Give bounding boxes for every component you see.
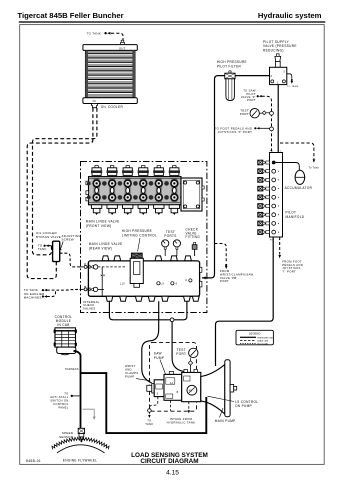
svg-text:L10: L10 <box>120 283 125 286</box>
svg-text:SCREW: SCREW <box>62 238 74 242</box>
node: from foot pedals T port (dashed) <box>278 237 303 274</box>
svg-text:OIL COOLER: OIL COOLER <box>101 105 124 109</box>
wire: filter to pilot supply valve <box>235 75 269 77</box>
node: to tank (bypass valve) <box>38 243 49 251</box>
wrist and clamps pump P2 <box>164 371 182 400</box>
wire: manifold to accumulator <box>276 163 300 171</box>
high pressure pilot filter <box>225 71 235 101</box>
rear valve internal ports <box>120 279 192 286</box>
svg-text:HYDRAULIC TANK: HYDRAULIC TANK <box>167 421 196 425</box>
svg-text:ON PUMP: ON PUMP <box>235 404 252 408</box>
svg-text:PUMP: PUMP <box>154 356 164 360</box>
svg-text:CIRCUIT DIAGRAM: CIRCUIT DIAGRAM <box>140 458 198 465</box>
svg-text:MAIN LINDE VALVE: MAIN LINDE VALVE <box>89 242 123 246</box>
svg-text:DRAIN LINE: DRAIN LINE <box>257 339 269 342</box>
adjusting screw pointer <box>59 242 63 251</box>
svg-text:P1: P1 <box>270 151 274 153</box>
wire: cooler return line inner (dashed) <box>33 108 97 255</box>
main pump bell housing <box>201 360 237 417</box>
wire: harness from module <box>74 351 81 428</box>
svg-text:MAIN LINDE VALVE: MAIN LINDE VALVE <box>86 220 120 224</box>
svg-text:PORT: PORT <box>176 352 186 356</box>
label: saw pump <box>154 352 166 376</box>
header rule <box>19 21 326 23</box>
svg-text:ACCUMULATOR: ACCUMULATOR <box>285 186 313 190</box>
svg-text:LIMITING CONTROL: LIMITING CONTROL <box>122 234 157 238</box>
svg-text:TANK: TANK <box>38 247 47 251</box>
wire: wrist pump drain (dashed) <box>169 400 171 411</box>
high pressure limiting control cartridge <box>130 253 143 287</box>
svg-text:LEGEND: LEGEND <box>249 331 261 335</box>
ground drop arrow <box>83 409 96 419</box>
junction: test port on tank line <box>270 111 274 115</box>
svg-text:PORT: PORT <box>220 279 229 283</box>
svg-text:SENSOR: SENSOR <box>59 435 73 439</box>
node: to tank (saw pump drain) <box>145 397 158 426</box>
wire: earlier-machines tank line lower (dashed) <box>47 290 56 297</box>
wire: junction down to main pump port <box>172 322 186 372</box>
svg-text:(FRONT VIEW): (FRONT VIEW) <box>86 224 112 228</box>
svg-text:PILOT FILTER: PILOT FILTER <box>217 64 242 68</box>
node: to anti-stall switch <box>50 391 79 409</box>
svg-text:3A: 3A <box>170 382 174 385</box>
wire: earlier-machines tank line upper (dashed) <box>47 288 80 291</box>
node: to tank on earlier machines <box>24 288 47 299</box>
oil cooler bottom port (IN) <box>92 104 98 108</box>
svg-text:'T' PORT: 'T' PORT <box>282 270 296 274</box>
wire: foot pedals to tank line <box>260 127 270 129</box>
enclosure: pump group (dashed) <box>150 342 197 411</box>
svg-text:P: P <box>271 75 273 78</box>
pilot manifold <box>270 151 283 242</box>
rear valve port 2 (left) <box>80 286 105 292</box>
svg-text:TANK: TANK <box>145 422 153 426</box>
svg-text:PORT: PORT <box>247 98 256 102</box>
test port gauge B <box>173 240 180 256</box>
svg-text:REDUCING): REDUCING) <box>263 48 284 52</box>
oil cooler bypass valve <box>53 241 60 261</box>
label: wrist and clamps pump <box>125 364 150 381</box>
oil cooler top port <box>121 40 124 42</box>
node: to tank (pilot supply valve) <box>287 74 299 88</box>
svg-text:PRESSURE LINE: PRESSURE LINE <box>257 337 273 339</box>
svg-text:T1: T1 <box>278 151 282 153</box>
wire: dashed to-tank stub from oil cooler top <box>111 33 123 40</box>
node: intake from hydraulic tank <box>167 402 196 425</box>
svg-text:MACHINES: MACHINES <box>24 296 42 300</box>
svg-text:ENGINE FLYWHEEL: ENGINE FLYWHEEL <box>63 458 98 462</box>
oil cooler <box>83 45 137 104</box>
svg-text:SWITCH ON: SWITCH ON <box>50 398 68 402</box>
svg-text:P: P <box>185 279 187 282</box>
enclosure: main linde valve (dash-dot box) <box>81 162 207 313</box>
svg-text:MANIFOLD: MANIFOLD <box>286 215 305 219</box>
check valve fitting <box>192 242 197 256</box>
svg-text:845B-01: 845B-01 <box>26 459 41 463</box>
svg-text:TO: TO <box>147 418 151 422</box>
svg-text:PANEL: PANEL <box>58 405 68 409</box>
svg-text:4.15: 4.15 <box>166 469 179 476</box>
svg-text:FITTING: FITTING <box>186 235 201 239</box>
pilot manifold couplers <box>258 160 270 234</box>
pilot supply valve U1 <box>270 67 287 84</box>
svg-text:BYPASS VALVE: BYPASS VALVE <box>36 235 61 239</box>
pilot supply valve solenoid <box>275 54 281 68</box>
svg-text:PILOT LINE: PILOT LINE <box>257 343 268 345</box>
wire: main pressure trunk (filter to rear valve right port) <box>202 76 225 278</box>
node: to saw pilot valve port <box>241 89 262 103</box>
wire: pilot supply down to manifold (solid) <box>277 85 279 153</box>
node: from wrist/clamps/saw valve PB port (dashed) <box>215 244 254 284</box>
wire: bypass valve right to main valve port 1 (dashed) <box>60 253 80 267</box>
label: LS control on pump <box>208 396 259 408</box>
svg-text:PORTS: PORTS <box>164 234 176 238</box>
wire: harness branch to LS control (thick) <box>81 373 207 433</box>
junction node on collector <box>170 318 174 322</box>
svg-text:MAIN PUMP: MAIN PUMP <box>215 419 236 423</box>
test port gauge (pilot) <box>250 109 270 118</box>
wire: manifold PB return to pump (solid) <box>216 237 274 366</box>
label: main pump <box>215 408 236 423</box>
svg-text:To Tank: To Tank <box>309 167 320 170</box>
wire: rear valve bottom collector <box>109 301 186 320</box>
svg-text:PORT: PORT <box>240 112 249 116</box>
svg-text:TO: TO <box>64 391 68 395</box>
svg-text:PUMP: PUMP <box>125 375 134 379</box>
svg-text:.8: .8 <box>175 283 178 286</box>
internal check valves detail <box>101 267 105 296</box>
svg-text:CONTROL: CONTROL <box>53 402 69 406</box>
wire: cooler return line outer (dashed) <box>27 108 93 279</box>
main linde valve (rear view) <box>88 256 202 301</box>
svg-text:TO TANK: TO TANK <box>287 85 299 88</box>
pilot manifold ports <box>272 161 279 234</box>
accumulator <box>295 170 305 184</box>
main linde valve (front view) <box>86 166 204 215</box>
junction: foot pedals on tank line <box>270 127 274 131</box>
svg-text:VALVES: VALVES <box>83 307 95 311</box>
legend box <box>236 330 274 345</box>
svg-text:(REAR VIEW): (REAR VIEW) <box>89 247 112 251</box>
test port gauge A <box>162 240 169 256</box>
wire: to-tank to bypass valve (dashed) <box>49 245 53 247</box>
wire: manifold to tank (dashed) <box>280 143 314 159</box>
saw pump P3 <box>147 380 164 397</box>
control module <box>54 328 77 355</box>
svg-text:Tigercat 845B Feller Buncher: Tigercat 845B Feller Buncher <box>17 11 123 20</box>
svg-text:B: B <box>177 391 179 394</box>
svg-text:IN: IN <box>93 99 96 103</box>
svg-text:JOYSTICKS 'P' PORT: JOYSTICKS 'P' PORT <box>218 130 253 134</box>
svg-text:HARNESS: HARNESS <box>65 368 79 371</box>
node: to foot pedals and joysticks P port <box>215 126 260 134</box>
svg-text:ANTI-STALL: ANTI-STALL <box>50 395 69 399</box>
test port gauge (pump) <box>188 348 198 372</box>
svg-text:OUT: OUT <box>119 47 126 51</box>
label: harness <box>65 368 79 371</box>
svg-text:LS: LS <box>161 283 165 286</box>
LS control box on pump <box>201 389 206 396</box>
node: to tank (oil cooler out) <box>87 32 111 36</box>
rear valve port 1 (left) <box>80 263 126 269</box>
svg-text:IN CAB: IN CAB <box>57 323 69 327</box>
main pump P1 <box>182 369 201 401</box>
svg-text:Hydraulic system: Hydraulic system <box>258 11 322 20</box>
speed sensor <box>78 428 84 442</box>
wire: rear valve to saw pump group <box>142 301 159 383</box>
svg-text:TO TANK: TO TANK <box>87 32 102 36</box>
svg-text:45: 45 <box>189 389 193 392</box>
svg-text:S: S <box>157 393 159 396</box>
wire: saw pilot to tank line (dashed) <box>262 96 272 152</box>
engine flywheel <box>52 437 109 453</box>
